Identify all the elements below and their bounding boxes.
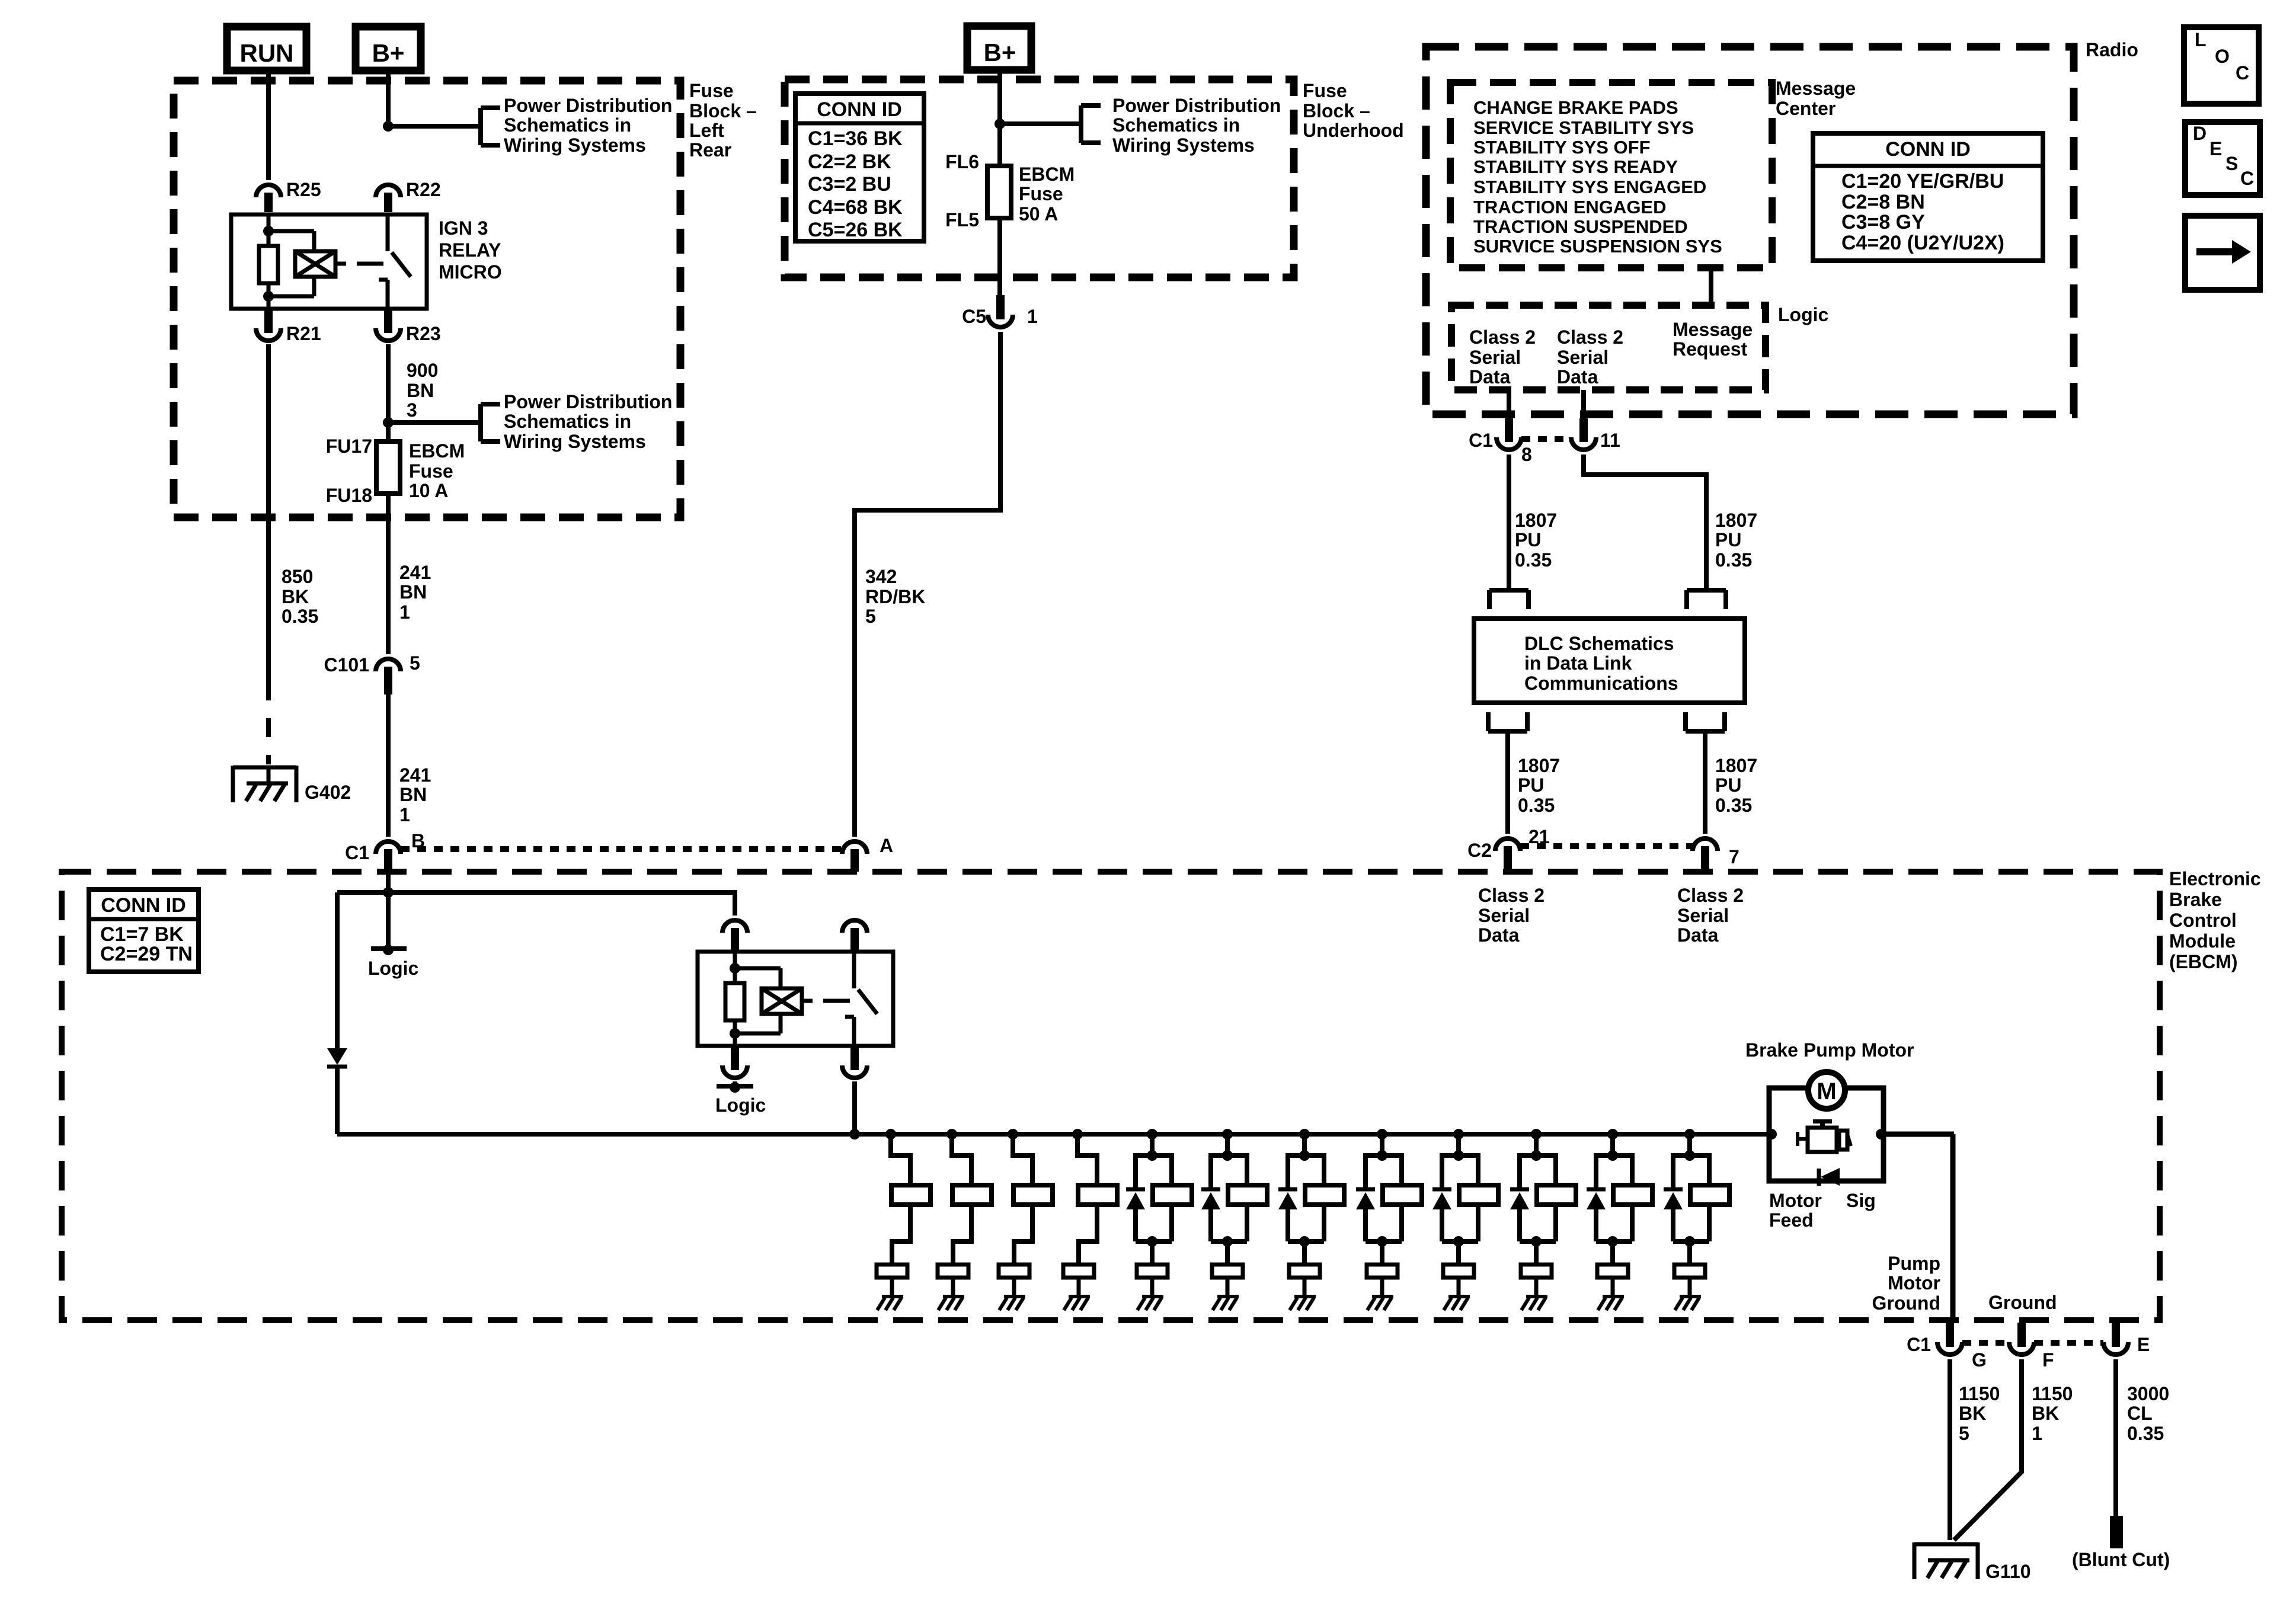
svg-text:7: 7 bbox=[1729, 846, 1739, 868]
svg-text:Class 2: Class 2 bbox=[1677, 885, 1744, 906]
svg-text:R25: R25 bbox=[286, 179, 321, 200]
connector R21 bbox=[256, 310, 321, 344]
connector pin F bbox=[2009, 1323, 2054, 1371]
svg-text:Data: Data bbox=[1478, 924, 1520, 946]
wire 850 BK 0.35 bbox=[268, 344, 318, 681]
CONN ID table (EBCM) bbox=[89, 889, 199, 972]
svg-text:Class 2: Class 2 bbox=[1469, 327, 1536, 348]
wire ignition feed inside EBCM bbox=[386, 872, 391, 892]
legend arrow box bbox=[2185, 216, 2260, 290]
svg-text:Fuse: Fuse bbox=[409, 460, 453, 482]
svg-text:Ground: Ground bbox=[1872, 1292, 1940, 1314]
relay switch bottom connector bbox=[842, 1046, 867, 1078]
motor circle M bbox=[1808, 1072, 1845, 1109]
solenoid valve branch 6 with diode bbox=[1201, 1129, 1267, 1310]
svg-text:BN: BN bbox=[399, 581, 427, 603]
svg-text:1150: 1150 bbox=[1959, 1383, 2000, 1404]
wire 1807 PU 0.35 (radio right) bbox=[1584, 454, 1757, 590]
dotted connector line G to F bbox=[1962, 1340, 2009, 1346]
svg-text:Logic: Logic bbox=[715, 1094, 766, 1116]
message center dashed boundary bbox=[1450, 82, 1772, 268]
svg-text:Data: Data bbox=[1557, 366, 1598, 388]
svg-text:Data: Data bbox=[1469, 366, 1511, 388]
label Pump Motor Ground bbox=[1872, 1253, 1940, 1314]
radio dashed boundary bbox=[1426, 47, 2074, 414]
ground G402 bbox=[233, 766, 351, 803]
wire junction to power distribution bracket 2 bbox=[388, 420, 481, 425]
svg-text:Block –: Block – bbox=[1303, 100, 1370, 121]
svg-text:A: A bbox=[880, 835, 893, 856]
svg-text:1807: 1807 bbox=[1518, 755, 1560, 776]
relay IGN 3 RELAY MICRO bbox=[231, 215, 502, 309]
wire junction to power distribution bracket bbox=[388, 124, 481, 129]
svg-text:CL: CL bbox=[2127, 1403, 2153, 1424]
svg-text:CHANGE BRAKE PADS: CHANGE BRAKE PADS bbox=[1473, 97, 1678, 118]
svg-text:EBCM: EBCM bbox=[409, 440, 465, 462]
svg-text:E: E bbox=[2209, 138, 2222, 159]
svg-text:SURVICE SUSPENSION SYS: SURVICE SUSPENSION SYS bbox=[1473, 236, 1722, 257]
wire radio pin 8 lead bbox=[1507, 390, 1511, 423]
wire 3000 CL 0.35 bbox=[2116, 1359, 2169, 1516]
legend LOC box bbox=[2184, 27, 2259, 104]
svg-text:(Blunt Cut): (Blunt Cut) bbox=[2072, 1549, 2170, 1570]
solenoid valve branch 11 with diode bbox=[1587, 1129, 1652, 1310]
EBCM dashed boundary bbox=[62, 872, 2160, 1320]
wire 342 RD/BK 5 bbox=[855, 332, 1000, 837]
power distribution reference bracket 2 bbox=[481, 391, 672, 452]
label Class 2 Serial Data (EBCM right) bbox=[1677, 885, 1744, 946]
svg-text:Serial: Serial bbox=[1557, 347, 1609, 368]
message center display text bbox=[1473, 97, 1722, 257]
svg-text:TRACTION SUSPENDED: TRACTION SUSPENDED bbox=[1473, 216, 1688, 237]
legend DESC box bbox=[2185, 122, 2260, 195]
EBCM pump motor relay bbox=[698, 952, 893, 1046]
label Message Request bbox=[1673, 319, 1753, 360]
svg-text:Logic: Logic bbox=[368, 958, 418, 979]
svg-text:Wiring Systems: Wiring Systems bbox=[504, 135, 646, 156]
svg-text:C2=29 TN: C2=29 TN bbox=[100, 943, 193, 965]
label Logic (radio) bbox=[1778, 304, 1828, 325]
connector pin 11 at radio bbox=[1571, 418, 1620, 451]
label Fuse Block - Left Rear bbox=[689, 80, 757, 161]
svg-text:Schematics in: Schematics in bbox=[504, 411, 631, 432]
svg-text:5: 5 bbox=[865, 606, 876, 627]
svg-text:Brake: Brake bbox=[2169, 889, 2222, 910]
dotted connector line B to A bbox=[401, 846, 842, 852]
svg-text:FU17: FU17 bbox=[326, 436, 372, 457]
node B+ battery feed box (left) bbox=[356, 27, 421, 71]
solenoid valve branch 3 bbox=[999, 1129, 1053, 1310]
wire RUN to R25 bbox=[266, 71, 271, 180]
label Class 2 Serial Data (radio left) bbox=[1469, 327, 1536, 388]
svg-text:Wiring Systems: Wiring Systems bbox=[504, 431, 646, 452]
svg-text:Electronic: Electronic bbox=[2169, 868, 2261, 889]
solenoid valve branch 4 bbox=[1063, 1129, 1117, 1310]
junction dot relay-bus bbox=[849, 1129, 860, 1140]
svg-text:M: M bbox=[1817, 1078, 1836, 1105]
svg-text:B+: B+ bbox=[372, 39, 405, 67]
node RUN (ignition feed) box bbox=[227, 27, 306, 71]
label Fuse Block - Underhood bbox=[1303, 80, 1404, 141]
svg-text:C1: C1 bbox=[1469, 430, 1493, 451]
power distribution reference bracket 1 bbox=[481, 95, 672, 156]
svg-text:0.35: 0.35 bbox=[1518, 795, 1555, 816]
svg-text:Serial: Serial bbox=[1469, 347, 1521, 368]
svg-text:Wiring Systems: Wiring Systems bbox=[1112, 135, 1255, 156]
svg-text:C2=2 BK: C2=2 BK bbox=[808, 151, 891, 173]
svg-text:0.35: 0.35 bbox=[2127, 1423, 2164, 1444]
svg-text:BK: BK bbox=[2032, 1403, 2059, 1424]
wire 241 BN 1 (lower) bbox=[388, 694, 431, 837]
svg-text:Feed: Feed bbox=[1769, 1209, 1814, 1231]
svg-text:Schematics in: Schematics in bbox=[1112, 114, 1240, 136]
svg-text:10 A: 10 A bbox=[409, 480, 448, 501]
svg-text:Power Distribution: Power Distribution bbox=[504, 95, 672, 116]
wire 1807 PU 0.35 (lower left) bbox=[1508, 731, 1560, 834]
solenoid valve branch 9 with diode bbox=[1432, 1129, 1498, 1310]
svg-text:Radio: Radio bbox=[2086, 39, 2138, 60]
wire junction to power distribution bracket 3 bbox=[1000, 121, 1081, 126]
fuse block - underhood dashed boundary bbox=[785, 79, 1294, 277]
svg-text:SERVICE STABILITY SYS: SERVICE STABILITY SYS bbox=[1473, 117, 1694, 138]
solenoid valve branch 7 with diode bbox=[1278, 1129, 1344, 1310]
svg-text:BN: BN bbox=[407, 380, 434, 401]
svg-text:PU: PU bbox=[1715, 774, 1741, 796]
label Class 2 Serial Data (EBCM left) bbox=[1478, 885, 1544, 946]
svg-text:1: 1 bbox=[399, 804, 410, 825]
label Brake Pump Motor bbox=[1745, 1039, 1914, 1061]
svg-text:PU: PU bbox=[1715, 529, 1741, 550]
connector pin E bbox=[2103, 1323, 2150, 1355]
svg-text:0.35: 0.35 bbox=[1715, 795, 1752, 816]
DLC bracket bottom-left bbox=[1488, 712, 1527, 731]
logic terminal 2 bbox=[715, 1081, 766, 1116]
wire B+ to junction bbox=[386, 71, 391, 126]
DLC bracket top-left bbox=[1489, 590, 1528, 609]
svg-text:1: 1 bbox=[399, 601, 410, 623]
label Class 2 Serial Data (radio right) bbox=[1557, 327, 1623, 388]
fuse FU17/FU18 EBCM Fuse 10 A bbox=[326, 422, 465, 506]
svg-text:5: 5 bbox=[1959, 1423, 1969, 1444]
label Electronic Brake Control Module (EBCM) bbox=[2169, 868, 2261, 972]
wire 1807 PU 0.35 (lower right) bbox=[1705, 731, 1757, 834]
svg-text:Data: Data bbox=[1677, 924, 1719, 946]
wire diode to bus bbox=[335, 1067, 340, 1134]
svg-text:C1: C1 bbox=[1907, 1334, 1931, 1355]
engine icon bbox=[1797, 1119, 1851, 1152]
label Sig bbox=[1846, 1190, 1876, 1211]
wire to relay coil bbox=[337, 892, 735, 916]
svg-text:DLC Schematics: DLC Schematics bbox=[1524, 633, 1674, 654]
svg-text:TRACTION ENGAGED: TRACTION ENGAGED bbox=[1473, 197, 1667, 217]
svg-text:342: 342 bbox=[865, 566, 897, 587]
svg-text:G402: G402 bbox=[305, 782, 351, 803]
wire 1150 BK 5 bbox=[1950, 1359, 2000, 1540]
wire B+ underhood to junction bbox=[997, 70, 1002, 124]
svg-text:FL5: FL5 bbox=[945, 209, 979, 231]
svg-text:3: 3 bbox=[407, 399, 417, 421]
svg-text:Control: Control bbox=[2169, 910, 2237, 931]
connector C2 pin 21 at EBCM bbox=[1467, 826, 1550, 872]
svg-text:D: D bbox=[2193, 123, 2207, 144]
connector C5 pin 1 bbox=[962, 295, 1038, 327]
svg-text:R22: R22 bbox=[406, 179, 441, 200]
svg-text:C: C bbox=[2240, 168, 2254, 189]
connector C1 pin 8 at radio bbox=[1469, 418, 1532, 465]
svg-text:Power Distribution: Power Distribution bbox=[1112, 95, 1281, 116]
wire fuse FL5 to C5 bbox=[997, 218, 1002, 295]
svg-text:STABILITY SYS ENGAGED: STABILITY SYS ENGAGED bbox=[1473, 177, 1706, 197]
junction dot on B+ wire bbox=[383, 121, 394, 132]
svg-text:C5: C5 bbox=[962, 306, 986, 327]
junction dot motor left bbox=[1766, 1129, 1777, 1140]
svg-text:RELAY: RELAY bbox=[439, 239, 501, 261]
svg-text:Class 2: Class 2 bbox=[1557, 327, 1623, 348]
svg-text:R21: R21 bbox=[286, 323, 321, 344]
solenoid valve branch 1 bbox=[877, 1129, 930, 1310]
svg-text:Request: Request bbox=[1673, 338, 1748, 360]
wire 241 BN 1 (upper) bbox=[388, 494, 431, 654]
CONN ID table (radio) bbox=[1813, 133, 2043, 261]
svg-text:Module: Module bbox=[2169, 930, 2236, 952]
svg-text:1: 1 bbox=[1027, 306, 1038, 327]
connector C1 pin B at EBCM bbox=[345, 830, 425, 872]
svg-text:C5=26 BK: C5=26 BK bbox=[808, 219, 903, 241]
DLC Schematics reference box bbox=[1474, 619, 1745, 703]
svg-text:Power Distribution: Power Distribution bbox=[504, 391, 672, 412]
svg-text:E: E bbox=[2137, 1334, 2150, 1355]
connector C1 pin G bbox=[1907, 1323, 1987, 1371]
svg-text:FU18: FU18 bbox=[326, 485, 372, 506]
svg-text:PU: PU bbox=[1515, 529, 1541, 550]
svg-text:Logic: Logic bbox=[1778, 304, 1828, 325]
svg-text:Sig: Sig bbox=[1846, 1190, 1876, 1211]
svg-text:Message: Message bbox=[1776, 78, 1856, 99]
svg-text:241: 241 bbox=[399, 764, 431, 786]
svg-text:STABILITY SYS OFF: STABILITY SYS OFF bbox=[1473, 137, 1651, 158]
svg-text:C2: C2 bbox=[1467, 840, 1492, 861]
svg-text:O: O bbox=[2215, 46, 2230, 67]
radio logic dashed boundary bbox=[1451, 305, 1766, 390]
solenoid valve branch 10 with diode bbox=[1510, 1129, 1576, 1310]
blunt cut terminal bbox=[2072, 1516, 2170, 1570]
svg-text:FL6: FL6 bbox=[945, 151, 979, 172]
fuse block - left rear dashed boundary bbox=[174, 81, 680, 517]
svg-text:50 A: 50 A bbox=[1019, 203, 1058, 225]
svg-text:C2=8 BN: C2=8 BN bbox=[1841, 191, 1925, 213]
svg-text:1150: 1150 bbox=[2032, 1383, 2073, 1404]
connector R25 bbox=[256, 179, 321, 212]
svg-text:0.35: 0.35 bbox=[1715, 549, 1752, 571]
junction dot motor right bbox=[1876, 1129, 1886, 1140]
dotted connector line 21 to 7 bbox=[1520, 843, 1693, 849]
svg-text:CONN ID: CONN ID bbox=[817, 98, 902, 121]
svg-text:G110: G110 bbox=[1985, 1561, 2031, 1582]
svg-text:PU: PU bbox=[1518, 774, 1544, 796]
DLC bracket top-right bbox=[1687, 590, 1726, 609]
svg-text:Motor: Motor bbox=[1769, 1190, 1822, 1211]
wire pump motor ground bbox=[1884, 1134, 1954, 1320]
svg-text:C3=8 GY: C3=8 GY bbox=[1841, 211, 1925, 233]
svg-text:BK: BK bbox=[282, 586, 309, 607]
svg-text:BN: BN bbox=[399, 784, 427, 805]
connector A at EBCM bbox=[842, 835, 893, 872]
connector R23 bbox=[376, 310, 441, 344]
wire 1807 PU 0.35 (radio left) bbox=[1509, 454, 1557, 590]
svg-text:Fuse: Fuse bbox=[1303, 80, 1347, 101]
wire to logic terminal bbox=[386, 892, 391, 949]
motor diode (Sig) bbox=[1819, 1168, 1840, 1186]
svg-text:C1=20 YE/GR/BU: C1=20 YE/GR/BU bbox=[1841, 170, 2004, 193]
svg-text:Fuse: Fuse bbox=[1019, 183, 1063, 204]
relay switch top connector bbox=[842, 920, 867, 952]
svg-text:in Data Link: in Data Link bbox=[1524, 652, 1632, 674]
label Ground (pins F/E) bbox=[1988, 1292, 2057, 1313]
wire 1150 BK 1 bbox=[1954, 1359, 2073, 1540]
solenoid valve branch 5 with diode bbox=[1126, 1129, 1192, 1310]
junction dot on underhood B+ wire bbox=[994, 119, 1005, 129]
svg-text:Fuse: Fuse bbox=[689, 80, 734, 101]
svg-text:Left: Left bbox=[689, 120, 724, 141]
svg-text:0.35: 0.35 bbox=[1515, 549, 1552, 571]
svg-text:C4=20 (U2Y/U2X): C4=20 (U2Y/U2X) bbox=[1841, 232, 2004, 254]
svg-text:Pump: Pump bbox=[1888, 1253, 1940, 1274]
svg-text:241: 241 bbox=[399, 562, 431, 583]
wire 900 BN 3 bbox=[388, 344, 438, 422]
solenoid valve branch 8 with diode bbox=[1356, 1129, 1422, 1310]
svg-text:1807: 1807 bbox=[1715, 755, 1757, 776]
svg-text:CONN ID: CONN ID bbox=[101, 894, 186, 917]
svg-text:1807: 1807 bbox=[1515, 510, 1557, 531]
svg-text:C1=36 BK: C1=36 BK bbox=[808, 127, 903, 150]
svg-text:Center: Center bbox=[1776, 98, 1835, 119]
dashed wire to G402 bbox=[266, 681, 271, 764]
diode D1 bbox=[327, 892, 347, 1067]
connector C101 pin 5 bbox=[324, 652, 420, 694]
label Motor Feed bbox=[1769, 1190, 1822, 1231]
svg-text:Rear: Rear bbox=[689, 139, 731, 161]
logic terminal 1 bbox=[368, 945, 418, 979]
svg-text:Underhood: Underhood bbox=[1303, 120, 1404, 141]
svg-text:(EBCM): (EBCM) bbox=[2169, 951, 2238, 972]
svg-text:Block –: Block – bbox=[689, 100, 757, 121]
svg-text:1: 1 bbox=[2032, 1423, 2042, 1444]
svg-text:Message: Message bbox=[1673, 319, 1753, 340]
svg-text:5: 5 bbox=[410, 652, 420, 674]
svg-text:850: 850 bbox=[282, 566, 313, 587]
wire relay to bus bbox=[852, 1081, 857, 1134]
label Message Center bbox=[1776, 78, 1856, 119]
wire message center to logic bbox=[1709, 268, 1713, 305]
svg-text:Ground: Ground bbox=[1988, 1292, 2057, 1313]
svg-text:900: 900 bbox=[407, 360, 438, 381]
svg-text:R23: R23 bbox=[406, 323, 441, 344]
connector R22 bbox=[376, 179, 441, 212]
svg-text:B+: B+ bbox=[984, 39, 1016, 66]
svg-text:8: 8 bbox=[1521, 444, 1532, 465]
node B+ battery feed box (underhood) bbox=[967, 26, 1031, 70]
svg-text:Communications: Communications bbox=[1524, 673, 1678, 694]
svg-text:Serial: Serial bbox=[1677, 905, 1729, 926]
svg-text:11: 11 bbox=[1600, 430, 1620, 451]
svg-text:EBCM: EBCM bbox=[1019, 164, 1075, 185]
svg-text:MICRO: MICRO bbox=[439, 261, 502, 283]
solenoid valve branch 12 with diode bbox=[1664, 1129, 1729, 1310]
relay coil bottom connector bbox=[722, 1046, 747, 1078]
svg-text:RUN: RUN bbox=[240, 39, 294, 67]
svg-text:BK: BK bbox=[1959, 1403, 1986, 1424]
wire radio pin 11 lead bbox=[1581, 390, 1586, 423]
junction dot above EBCM fuse bbox=[383, 417, 394, 428]
svg-text:0.35: 0.35 bbox=[282, 606, 318, 627]
svg-text:Class 2: Class 2 bbox=[1478, 885, 1544, 906]
CONN ID table (underhood fuse block) bbox=[795, 94, 924, 241]
connector pin 7 at EBCM bbox=[1693, 838, 1739, 872]
relay coil top connector bbox=[722, 920, 747, 952]
svg-text:G: G bbox=[1972, 1349, 1987, 1371]
motor M1 box bbox=[1769, 1088, 1884, 1181]
junction dot inside EBCM bbox=[383, 887, 394, 898]
solenoid valve branch 2 bbox=[938, 1129, 992, 1310]
svg-text:S: S bbox=[2225, 153, 2238, 174]
label Radio bbox=[2086, 39, 2138, 60]
svg-text:C: C bbox=[2236, 62, 2249, 84]
svg-text:3000: 3000 bbox=[2127, 1383, 2169, 1404]
svg-text:L: L bbox=[2195, 29, 2207, 50]
svg-text:C4=68 BK: C4=68 BK bbox=[808, 196, 903, 219]
svg-text:IGN 3: IGN 3 bbox=[439, 217, 488, 239]
svg-text:RD/BK: RD/BK bbox=[865, 586, 925, 607]
svg-text:1807: 1807 bbox=[1715, 510, 1757, 531]
svg-text:Brake Pump Motor: Brake Pump Motor bbox=[1745, 1039, 1914, 1061]
svg-text:Schematics in: Schematics in bbox=[504, 114, 631, 136]
dotted connector line 8 to 11 bbox=[1521, 436, 1571, 442]
dotted connector line F to E bbox=[2034, 1340, 2103, 1346]
fuse FL6/FL5 EBCM Fuse 50 A bbox=[945, 124, 1075, 231]
svg-text:STABILITY SYS READY: STABILITY SYS READY bbox=[1473, 156, 1678, 177]
bus wire motor feed bbox=[337, 1132, 1769, 1137]
power distribution reference bracket 3 bbox=[1081, 95, 1281, 156]
svg-text:F: F bbox=[2042, 1349, 2054, 1371]
ground G110 bbox=[1914, 1542, 2031, 1582]
DLC bracket bottom-right bbox=[1686, 712, 1725, 731]
svg-text:C101: C101 bbox=[324, 654, 370, 676]
svg-text:Motor: Motor bbox=[1888, 1272, 1940, 1294]
svg-text:Serial: Serial bbox=[1478, 905, 1530, 926]
svg-text:CONN ID: CONN ID bbox=[1885, 138, 1971, 161]
svg-text:C1: C1 bbox=[345, 842, 369, 863]
svg-text:C3=2 BU: C3=2 BU bbox=[808, 173, 891, 196]
